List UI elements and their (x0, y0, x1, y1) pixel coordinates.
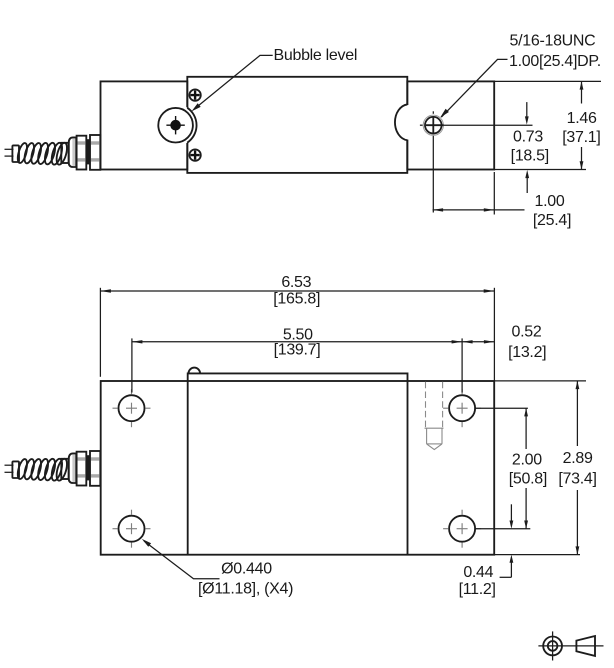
svg-text:6.53: 6.53 (281, 274, 311, 291)
cable end cap top view (12, 145, 19, 162)
body outline bottom view (101, 381, 495, 555)
dimension 0.52 [13.2] (462, 324, 546, 361)
svg-text:2.00: 2.00 (512, 451, 542, 468)
wire leads top view (5, 149, 14, 156)
cable gland o-ring bottom view (86, 455, 90, 480)
body right block top view (407, 81, 494, 169)
cable gland nut top view (77, 136, 87, 170)
svg-text:[50.8]: [50.8] (509, 470, 547, 487)
dimension 1.00 [25.4] top view (433, 172, 572, 229)
svg-text:5/16-18UNC: 5/16-18UNC (510, 33, 596, 50)
cable gland washer top view (90, 135, 100, 170)
screw lower (189, 149, 200, 160)
dimension 0.44 [11.2] (459, 504, 514, 598)
cover notch arc at right edge (406, 105, 409, 140)
svg-text:[139.7]: [139.7] (274, 342, 321, 359)
svg-text:[Ø11.18], (X4): [Ø11.18], (X4) (198, 581, 293, 598)
mounting hole bottom-right (449, 516, 475, 542)
cable gland bell bottom view (69, 453, 77, 483)
svg-text:Ø0.440: Ø0.440 (221, 561, 272, 578)
dimension 2.89 [73.4] (494, 381, 596, 555)
svg-text:2.89: 2.89 (563, 450, 593, 467)
svg-text:[25.4]: [25.4] (533, 212, 571, 229)
cable gland bell top view (69, 137, 77, 167)
leader 5/16-18UNC tapped hole (440, 33, 601, 118)
svg-text:1.46: 1.46 (567, 110, 597, 127)
dim extension bottom edge right (494, 169, 586, 171)
tapped hole top view (423, 115, 443, 135)
svg-text:Bubble level: Bubble level (274, 47, 358, 64)
cable gland washer bottom view (90, 451, 100, 486)
bubble dome bump (189, 368, 201, 374)
svg-text:0.73: 0.73 (513, 128, 543, 145)
bubble level center dot (170, 120, 181, 131)
leader hole callout (142, 539, 293, 598)
center block bottom view (188, 373, 408, 554)
cable gland nut bottom view (77, 452, 87, 486)
cable spring strain relief bottom view (16, 458, 69, 482)
cable spring strain relief top view (16, 142, 69, 166)
cable end cap bottom view (12, 461, 19, 478)
cable collar top view (61, 143, 68, 163)
leader Bubble level (192, 47, 358, 111)
mounting hole top-left (119, 395, 145, 421)
svg-text:0.52: 0.52 (512, 324, 542, 341)
svg-text:[18.5]: [18.5] (511, 147, 549, 164)
svg-text:1.00[25.4]DP.: 1.00[25.4]DP. (509, 53, 601, 70)
cable gland o-ring top view (86, 139, 90, 164)
svg-text:0.44: 0.44 (463, 564, 493, 581)
mounting hole top-right (449, 395, 475, 421)
bubble level outer circle (158, 108, 193, 143)
mounting hole bottom-left (119, 516, 145, 542)
tapped hole crosshair (426, 117, 444, 135)
dim extension top edge right (494, 80, 601, 82)
svg-text:1.00: 1.00 (535, 193, 565, 210)
bubble level boss (155, 104, 197, 146)
hidden tapped hole (plan) (425, 382, 444, 450)
third angle projection symbol (538, 631, 603, 660)
cable collar bottom view (61, 459, 68, 479)
svg-text:[11.2]: [11.2] (459, 581, 496, 598)
body cover plate top view (187, 77, 407, 173)
dimension 2.00 [50.8] (475, 408, 547, 529)
dimension 0.73 [18.5] (511, 102, 549, 193)
dimension 5.50 [139.7] (132, 326, 462, 392)
svg-text:[13.2]: [13.2] (508, 344, 546, 361)
screw upper (189, 89, 200, 100)
dimension 1.46 [37.1] (562, 81, 600, 169)
body left block top view (101, 81, 188, 169)
dimension 6.53 [165.8] (100, 274, 494, 381)
svg-text:[73.4]: [73.4] (558, 471, 596, 488)
wire leads bottom view (5, 465, 14, 472)
svg-text:[165.8]: [165.8] (273, 291, 320, 308)
svg-text:[37.1]: [37.1] (562, 129, 600, 146)
